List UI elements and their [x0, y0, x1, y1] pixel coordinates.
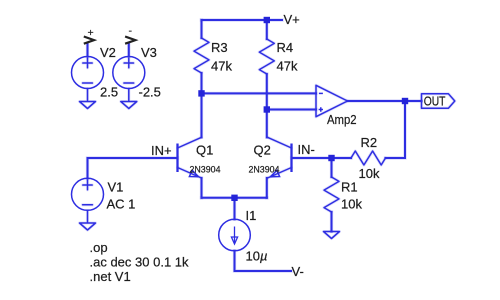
svg-text:Q1: Q1 — [196, 143, 213, 158]
svg-text:47k: 47k — [277, 59, 298, 74]
svg-text:IN-: IN- — [298, 142, 315, 157]
resistor R4 body — [259, 39, 274, 74]
wire op-amp output — [348, 99, 406, 102]
junction output node — [402, 98, 408, 104]
svg-text:-: - — [129, 25, 133, 37]
wire node IN- to R2 — [332, 156, 352, 159]
svg-text:R1: R1 — [341, 180, 358, 195]
ground under V3 — [121, 89, 137, 109]
svg-text:V+: V+ — [284, 12, 300, 27]
wire R4 node to op-amp non-inverting input — [267, 108, 316, 111]
junction emitter tail — [231, 195, 237, 201]
svg-text:R2: R2 — [361, 135, 378, 150]
svg-text:2N3904: 2N3904 — [190, 165, 222, 176]
wire R3 node down to Q1 collector — [200, 93, 203, 137]
wire Q2 emitter down — [265, 178, 268, 198]
svg-text:-2.5: -2.5 — [139, 85, 161, 100]
wire Q2 base to node IN- — [292, 156, 332, 159]
wire Q1 emitter down — [200, 178, 203, 198]
wire R3 bottom lead — [200, 73, 203, 93]
wire R3 top lead — [200, 20, 203, 38]
svg-text:10µ: 10µ — [246, 249, 268, 264]
wire tail node down to I1 — [233, 198, 236, 220]
wire output node to OUT port — [405, 99, 422, 102]
wire emitter common rail — [202, 196, 267, 199]
wire V+ top rail — [202, 18, 283, 21]
svg-text:.op: .op — [90, 240, 108, 255]
svg-text:10k: 10k — [341, 197, 362, 212]
wire V1 to Q1 base (node IN+) — [88, 158, 178, 179]
svg-text:V3: V3 — [141, 45, 157, 60]
svg-text:AC 1: AC 1 — [107, 197, 136, 212]
net flag + (above V2) — [84, 37, 94, 44]
ground under R1 — [324, 232, 340, 239]
svg-text:V2: V2 — [100, 45, 116, 60]
voltage source V1 (AC 1) — [72, 178, 104, 210]
svg-text:2N3904: 2N3904 — [249, 165, 281, 176]
junction R4 / op-amp plus — [264, 106, 270, 112]
transistor Q1 2N3904 (NPN) — [176, 144, 178, 173]
wire R4 bottom lead — [265, 74, 268, 110]
svg-text:I1: I1 — [246, 208, 257, 223]
svg-text:.ac dec 30 0.1 1k: .ac dec 30 0.1 1k — [90, 255, 190, 270]
svg-text:V1: V1 — [108, 180, 124, 195]
ground under V1 — [80, 211, 96, 231]
junction R3 / op-amp minus — [198, 90, 204, 96]
current source I1 (10u) — [219, 219, 251, 251]
svg-text:IN+: IN+ — [151, 143, 172, 158]
net flag - (above V3) — [125, 37, 135, 44]
svg-text:R4: R4 — [277, 40, 294, 55]
wire R4 node down to Q2 collector — [265, 110, 268, 138]
svg-text:47k: 47k — [211, 59, 232, 74]
svg-text:R3: R3 — [211, 40, 228, 55]
port OUT — [422, 94, 455, 108]
wire V2 to net flag + — [86, 44, 89, 57]
transistor Q2 2N3904 (NPN, mirrored) — [290, 144, 292, 173]
voltage source V2 (2.5V) — [72, 57, 104, 89]
wire R1 bottom lead — [330, 212, 333, 232]
svg-text:10k: 10k — [359, 166, 380, 181]
wire I1 to V- flag — [235, 251, 292, 271]
resistor R1 body — [324, 177, 339, 212]
wire R4 top lead — [265, 20, 268, 39]
junction V+ rail / R4 — [264, 17, 270, 23]
wire node IN- down to R1 — [330, 158, 333, 177]
svg-text:+: + — [88, 27, 94, 39]
svg-text:Q2: Q2 — [254, 143, 271, 158]
resistor R3 body — [194, 38, 209, 73]
ground under V2 — [80, 89, 96, 109]
svg-text:OUT: OUT — [424, 94, 446, 109]
wire R2 to output node — [386, 101, 406, 158]
junction node IN- — [328, 155, 334, 161]
op-amp U1 Amp2 — [316, 85, 348, 116]
svg-text:2.5: 2.5 — [100, 85, 118, 100]
wire V3 to net flag - — [127, 44, 130, 57]
resistor R2 body — [351, 151, 386, 165]
svg-text:Amp2: Amp2 — [327, 112, 357, 127]
voltage source V3 (-2.5V) — [113, 57, 145, 89]
svg-text:V-: V- — [292, 264, 304, 279]
svg-text:.net V1: .net V1 — [90, 269, 131, 284]
wire R3 node to op-amp inverting input — [202, 92, 317, 95]
